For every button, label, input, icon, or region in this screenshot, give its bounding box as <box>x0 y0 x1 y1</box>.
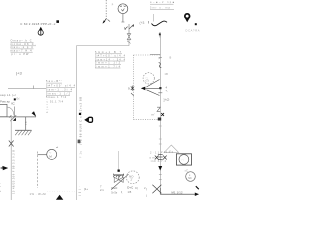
motor M1 circle <box>47 147 58 160</box>
star node on right bus <box>161 113 164 116</box>
wire: main vertical bus left-center <box>76 46 78 201</box>
svg-text:]+∅: ]+∅ <box>164 98 170 102</box>
valve bowtie symbol <box>114 177 123 182</box>
signal arrow into left vertical <box>2 166 8 170</box>
actuator diagonal to dashed circle <box>111 174 128 189</box>
wire: top horizontal run <box>77 45 129 47</box>
meter circle top-center <box>118 4 128 14</box>
dash ticks on lower right bus <box>159 174 162 176</box>
svg-text:ξ: ξ <box>121 190 123 194</box>
svg-text:C 60 2.0218 PPP+0:-x:: C 60 2.0218 PPP+0:-x: <box>20 22 56 26</box>
svg-text:5mau·1 7/4: 5mau·1 7/4 <box>46 96 67 99</box>
svg-text:15 46/25.309 F 88 3.5 0.2 B: 15 46/25.309 F 88 3.5 0.2 B <box>12 150 16 194</box>
dashed enclosure left edge <box>133 55 135 120</box>
svg-text:5mau·1 1/2: 5mau·1 1/2 <box>46 92 71 95</box>
svg-text:51.1 7/4: 51.1 7/4 <box>50 100 64 103</box>
wire arc from box corner <box>7 107 14 116</box>
svg-text:Paw ap: Paw ap <box>0 100 10 104</box>
wire: drop to ground <box>25 117 27 130</box>
svg-text:2·11: 2·11 <box>150 152 160 155</box>
svg-text::·:: :·: <box>182 159 185 162</box>
svg-text:9: 9 <box>128 87 130 91</box>
asterisk component on dashed edge <box>131 86 134 91</box>
connector ticks on right bus <box>155 155 167 160</box>
tick under junction <box>158 92 162 94</box>
svg-text:5r 5z: 5r 5z <box>111 190 118 194</box>
svg-text:Ex': Ex' <box>17 98 21 101</box>
svg-text:1% · W+M: 1% · W+M <box>30 192 47 196</box>
node dot right edge <box>195 23 197 25</box>
connector pin symbol: filled triangle over circle <box>38 27 43 36</box>
large X switch on right bus <box>152 185 161 193</box>
svg-text:5am–1 .3i 4: 5am–1 .3i 4 <box>46 88 73 91</box>
valve/diode pair on stack <box>127 34 131 37</box>
bottom dimension line <box>159 188 161 194</box>
svg-text:(+3: (+3 <box>16 71 23 76</box>
svg-text:············: ············ <box>47 189 75 193</box>
svg-text:+,: +, <box>166 89 169 93</box>
svg-text:(+3: (+3 <box>140 21 145 25</box>
ground: hatched earth <box>15 130 32 135</box>
chassis ground bar <box>113 174 124 178</box>
break squiggle on right bus y~63 <box>159 63 162 68</box>
Z mark on right bus y~108 <box>157 107 160 111</box>
node tick on net y=88 <box>33 86 35 89</box>
transistor Q1 (left) <box>9 115 16 121</box>
dashed enclosure top edge <box>134 54 161 56</box>
wire: main vertical bus right <box>159 34 161 166</box>
svg-text:[1+: [1+ <box>84 187 88 191</box>
node dot above chassis <box>118 170 120 172</box>
svg-text:m': m' <box>152 113 155 117</box>
svg-text:2.11 2.2: 2.11 2.2 <box>161 151 174 154</box>
svg-text:b|urd:: b|urd: <box>46 99 49 113</box>
svg-text:5au–B°': 5au–B°' <box>46 80 63 83</box>
svg-text::m0 3/7.2: :m0 3/7.2 <box>150 160 167 163</box>
svg-text:oap L1 (+/: oap L1 (+/ <box>0 93 16 97</box>
dashed control line top <box>105 0 107 19</box>
wire: horizontal at y=117 <box>0 116 36 118</box>
pump box with circle <box>176 154 191 165</box>
svg-text:D+C: D+C <box>127 186 133 190</box>
svg-text:ℓC: ℓC <box>12 102 16 106</box>
down arrow on right bus <box>158 166 162 171</box>
dashed wire x=37 bottom-left <box>36 152 38 189</box>
wire faint drop center-bottom <box>118 151 120 170</box>
node: junction on right bus <box>158 118 161 121</box>
svg-text:): ) <box>146 187 147 191</box>
svg-text:|ξ|·: |ξ|· <box>78 186 82 196</box>
svg-text:p.: p. <box>112 3 114 6</box>
svg-text:5mr u. mp: 5mr u. mp <box>150 7 171 10</box>
connector box J1 left edge <box>0 104 7 116</box>
text block B (mid-left) <box>46 80 76 103</box>
wire to motor M1 <box>37 154 46 156</box>
svg-text:|: | <box>146 194 147 198</box>
dashed circle NO2 <box>126 171 139 184</box>
sine squiggle symbol <box>152 21 168 26</box>
zener mark on right bus y~57 <box>159 58 162 60</box>
horn symbol with left arrow <box>141 80 160 96</box>
tick marks on right bus <box>159 125 162 127</box>
circle 11/NC <box>186 172 196 182</box>
svg-text:1/5: 1/5 <box>128 190 132 194</box>
svg-text:(*): (*) <box>146 79 149 83</box>
black up triangle marker <box>56 195 63 200</box>
wire below chassis <box>118 175 120 180</box>
text block C (center) <box>95 51 126 68</box>
wire: long left vertical <box>10 117 12 200</box>
svg-text:B: B <box>170 56 172 60</box>
svg-text:M1 1/12: M1 1/12 <box>172 190 184 194</box>
svg-text:|TC 98 6U/9 C u+uZ+u3 8B: |TC 98 6U/9 C u+uZ+u3 8B <box>79 97 83 145</box>
svg-text:NC: NC <box>188 177 192 180</box>
wire from meter down <box>122 14 124 22</box>
text block A line 1 <box>11 40 37 56</box>
fuse X mark on left vertical <box>9 141 14 147</box>
dashed enclosure bottom edge <box>134 119 161 121</box>
svg-text:F 1u: F 1u <box>79 150 82 158</box>
corner tick bottom right <box>196 186 199 189</box>
svg-text:«C: «C <box>185 168 189 172</box>
location pin symbol top-right <box>184 13 190 22</box>
wire: left horizontal net y=88 <box>8 88 46 90</box>
node: bold square end of title <box>56 20 59 23</box>
svg-text:D+C: D+C <box>112 186 118 190</box>
node dot start of right bus <box>159 33 161 35</box>
wire: stub into right bus at top <box>150 54 160 56</box>
wire: stub up to transistor stack <box>128 37 130 46</box>
svg-text:DCA?RA: DCA?RA <box>186 29 200 33</box>
node dot on vertical label <box>79 113 81 115</box>
svg-text:M: M <box>49 155 52 159</box>
svg-text:1 0: 1 0 <box>25 121 28 125</box>
polarized feed-through symbol on bus <box>84 117 92 122</box>
svg-text:L'/-: L'/- <box>0 183 2 192</box>
arrow at end of wire <box>32 111 37 117</box>
svg-text:5#T+00' u/4 4: 5#T+00' u/4 4 <box>46 84 76 87</box>
triangle symbol lower right <box>164 145 178 152</box>
svg-text:2.1: 2.1 <box>100 188 104 192</box>
wire: drop from lC <box>14 107 16 118</box>
arrow end of dashed line <box>103 3 115 24</box>
svg-text:C|: C| <box>135 186 138 190</box>
top-right table rule 1 <box>150 1 174 10</box>
dashed circle sensor <box>143 73 154 84</box>
svg-text:7: 7 <box>100 184 102 188</box>
svg-text:×8: ×8 <box>165 72 169 76</box>
thyristor stack center-top <box>124 24 134 43</box>
svg-text:pr: u PW: pr: u PW <box>11 53 29 56</box>
